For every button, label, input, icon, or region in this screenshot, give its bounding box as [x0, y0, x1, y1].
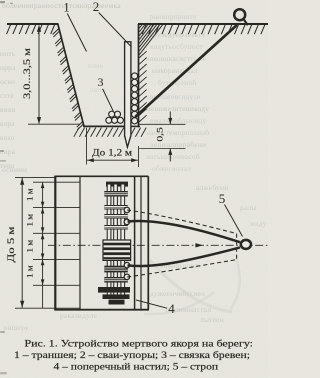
- paper grain: [0, 0, 1, 1]
- strop loop ring in plan: [241, 240, 251, 249]
- dashed strop outline top: [127, 210, 237, 234]
- depth dimension 3,0...3,5 m: dimension line: [38, 26, 40, 124]
- strop loop tail: [243, 19, 247, 25]
- trench slope (left wall): [58, 24, 84, 127]
- ground surface line right of trench: [138, 23, 268, 25]
- ground surface line left of trench: [7, 23, 58, 25]
- dense hatch wedge at top of right trench wall: [139, 25, 163, 55]
- width dimension line: [87, 159, 138, 161]
- bleed-through text from reverse page: [0, 1, 267, 332]
- central lashing block: [103, 240, 131, 260]
- width dimension До 1,2 м: extension lines: [86, 128, 88, 165]
- rope lashing bands: [104, 191, 128, 197]
- right trench wall: [138, 24, 140, 127]
- centre line (dash-dot) of plan: [48, 244, 268, 246]
- log bundle cluster at trench bottom: [106, 111, 124, 123]
- strop rope lower: [128, 247, 241, 266]
- dashed strop outline right: [236, 234, 238, 260]
- log bundle seen end-on: column of logs against pile: [132, 73, 138, 124]
- dashed strop outline bottom: [127, 260, 237, 277]
- strop attachment rings: [124, 207, 129, 279]
- leader line for label 4: [136, 300, 167, 308]
- hatch below trench bottom: [74, 128, 146, 137]
- trench bottom line: [83, 125, 125, 127]
- chained 1 m dimension line: [42, 182, 44, 308]
- hatch marks along trench slope: [53, 29, 84, 130]
- depth dimension extension line at trench bottom: [28, 123, 80, 125]
- strop rope upper: [128, 221, 241, 242]
- strop rope from bundle up to surface: [135, 25, 237, 117]
- log bundle: three long logs: [107, 184, 111, 298]
- plan: decking rectangle: [54, 176, 56, 309]
- bottom cross decking bars: [98, 287, 130, 293]
- plan: inner vertical line near bundle: [134, 176, 136, 309]
- leader line for label 1: [67, 14, 86, 52]
- plan: inner vertical line (trench edge): [79, 176, 81, 309]
- leader line for label 5: [225, 205, 243, 237]
- hatch ticks along right trench wall: [139, 51, 147, 122]
- plan: 1 m spacing tick lines: [15, 177, 80, 308]
- scan specks and edge smudges: [0, 1, 13, 374]
- 0,5 dimension line with outside arrows: [169, 112, 171, 125]
- leader line for label 3: [103, 89, 114, 111]
- strop loop above ground: [234, 9, 245, 20]
- log bundle: top cap bar: [106, 182, 128, 187]
- pile-support (свая-упор), pointed stake: [125, 42, 131, 147]
- 0,5 dimension extension lines: [139, 123, 185, 125]
- ground hatching right of trench: [142, 25, 265, 34]
- arrow on centre line: [195, 243, 203, 247]
- plan: inner vertical line 2 near bundle: [140, 176, 142, 309]
- leader line for label 2: [99, 13, 132, 48]
- ground hatching left of trench: [7, 25, 55, 34]
- dimension До 5 м line: [21, 178, 23, 308]
